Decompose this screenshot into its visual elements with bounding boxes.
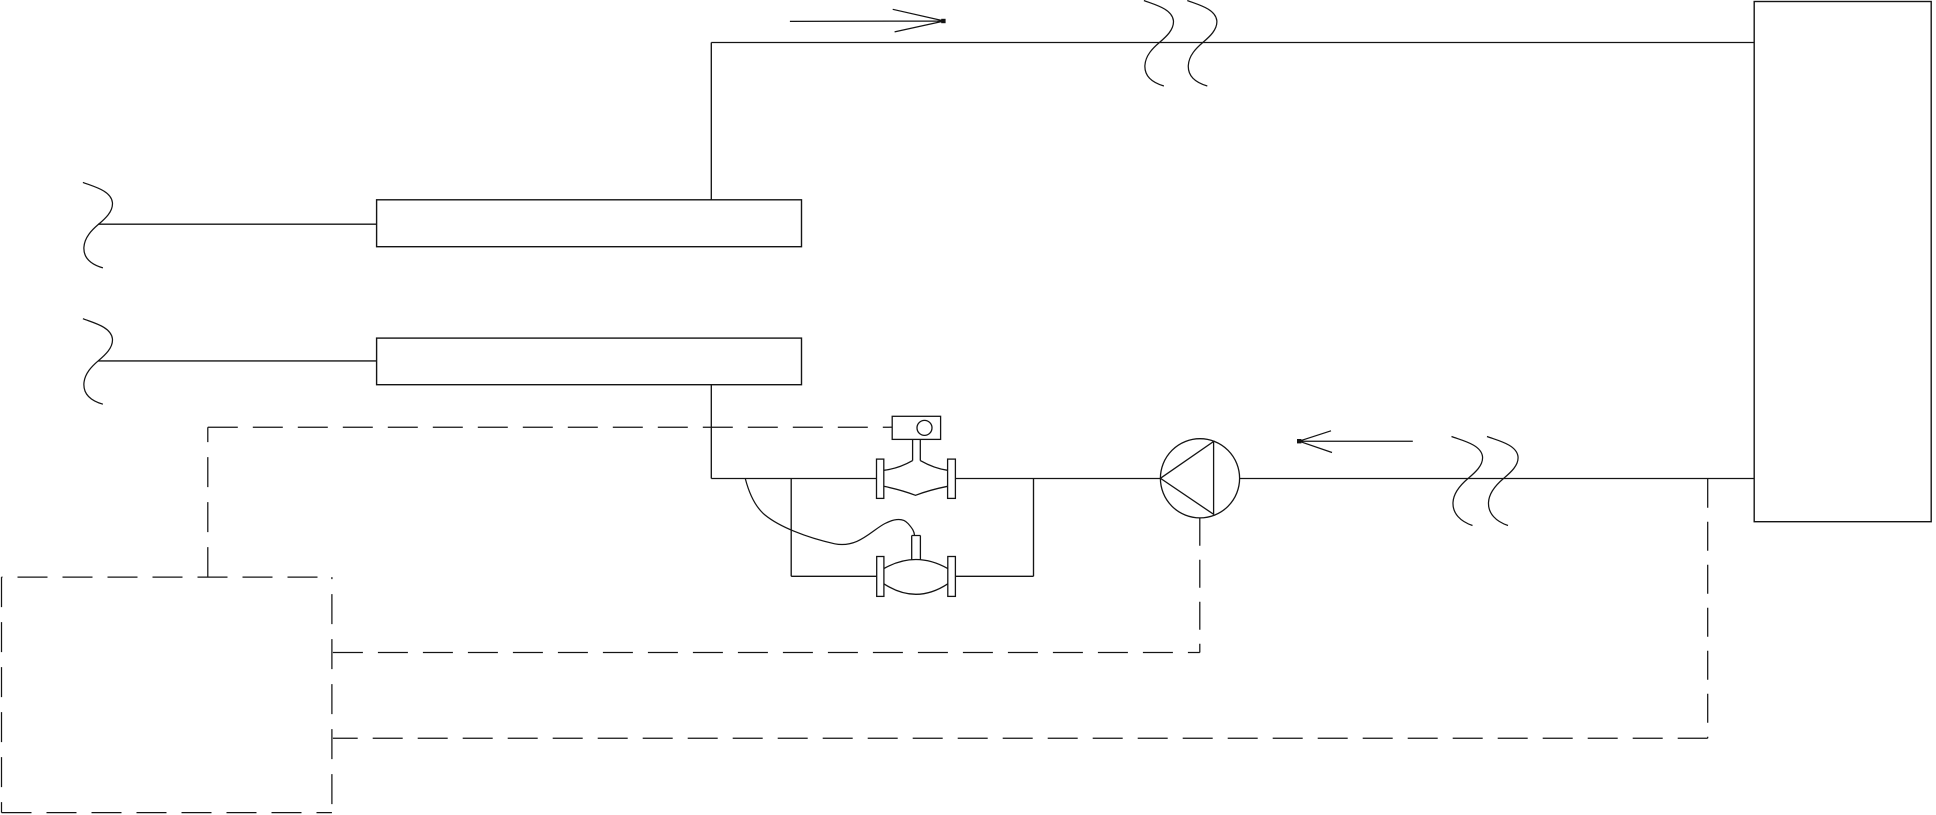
wire: return pipe segment (drop to control valve) xyxy=(711,478,876,480)
wire: coil 2 left inlet pipe xyxy=(98,360,377,362)
controller (dashed box, bottom left) xyxy=(2,577,332,813)
pipe break symbol (supply, right squiggle) xyxy=(1187,1,1217,87)
control line: controller to pump (vertical run) xyxy=(1199,518,1201,653)
capillary tube from return pipe to bypass valve stem xyxy=(745,479,914,545)
wire: bypass pipe left segment xyxy=(791,575,877,577)
wire: return pipe segment (valve to pump) xyxy=(955,478,1160,480)
pipe break symbol (return, right squiggle) xyxy=(1487,437,1518,526)
balancing valve V2 (bypass globe valve) xyxy=(877,536,956,597)
control line: controller to valve actuator (vertical run) xyxy=(207,427,209,577)
control valve V1 (two-way valve with flanges) xyxy=(877,439,956,498)
control line: controller to return sensor (horizontal run) xyxy=(333,737,1708,739)
control line: controller to return sensor (vertical run) xyxy=(1707,479,1709,739)
pipe break symbol (return, left squiggle) xyxy=(1452,437,1483,526)
heating coil 2 xyxy=(377,338,802,385)
pump P (circle with inscribed triangle) xyxy=(1160,439,1239,518)
wire: supply pipe (top horizontal) xyxy=(711,42,1754,44)
wire: return pipe segment (pump to load unit) xyxy=(1240,478,1755,480)
wire: bypass pipe right segment xyxy=(955,575,1033,577)
pipe break symbol (coil 1 inlet) xyxy=(83,182,113,268)
wire: bypass left riser xyxy=(790,479,792,577)
control line: controller to pump (horizontal run) xyxy=(333,652,1200,654)
control line: controller to valve actuator (horizontal run) xyxy=(208,426,892,428)
flow arrow (return, pointing left) xyxy=(1297,431,1413,453)
flow arrow (supply, pointing right) xyxy=(790,9,946,32)
wire: drop from coil 2 to return pipe xyxy=(710,385,712,479)
wire: riser from supply down to coil 1 xyxy=(710,43,712,200)
valve actuator (box with indicator circle) xyxy=(892,416,940,439)
pipe break symbol (coil 2 inlet) xyxy=(83,319,113,405)
wire: bypass right riser xyxy=(1033,479,1035,577)
wire: coil 1 left inlet pipe xyxy=(98,223,377,225)
load / user unit (right tall rectangle) xyxy=(1754,2,1931,522)
pipe break symbol (supply, left squiggle) xyxy=(1144,1,1174,87)
heating coil 1 xyxy=(377,200,802,247)
